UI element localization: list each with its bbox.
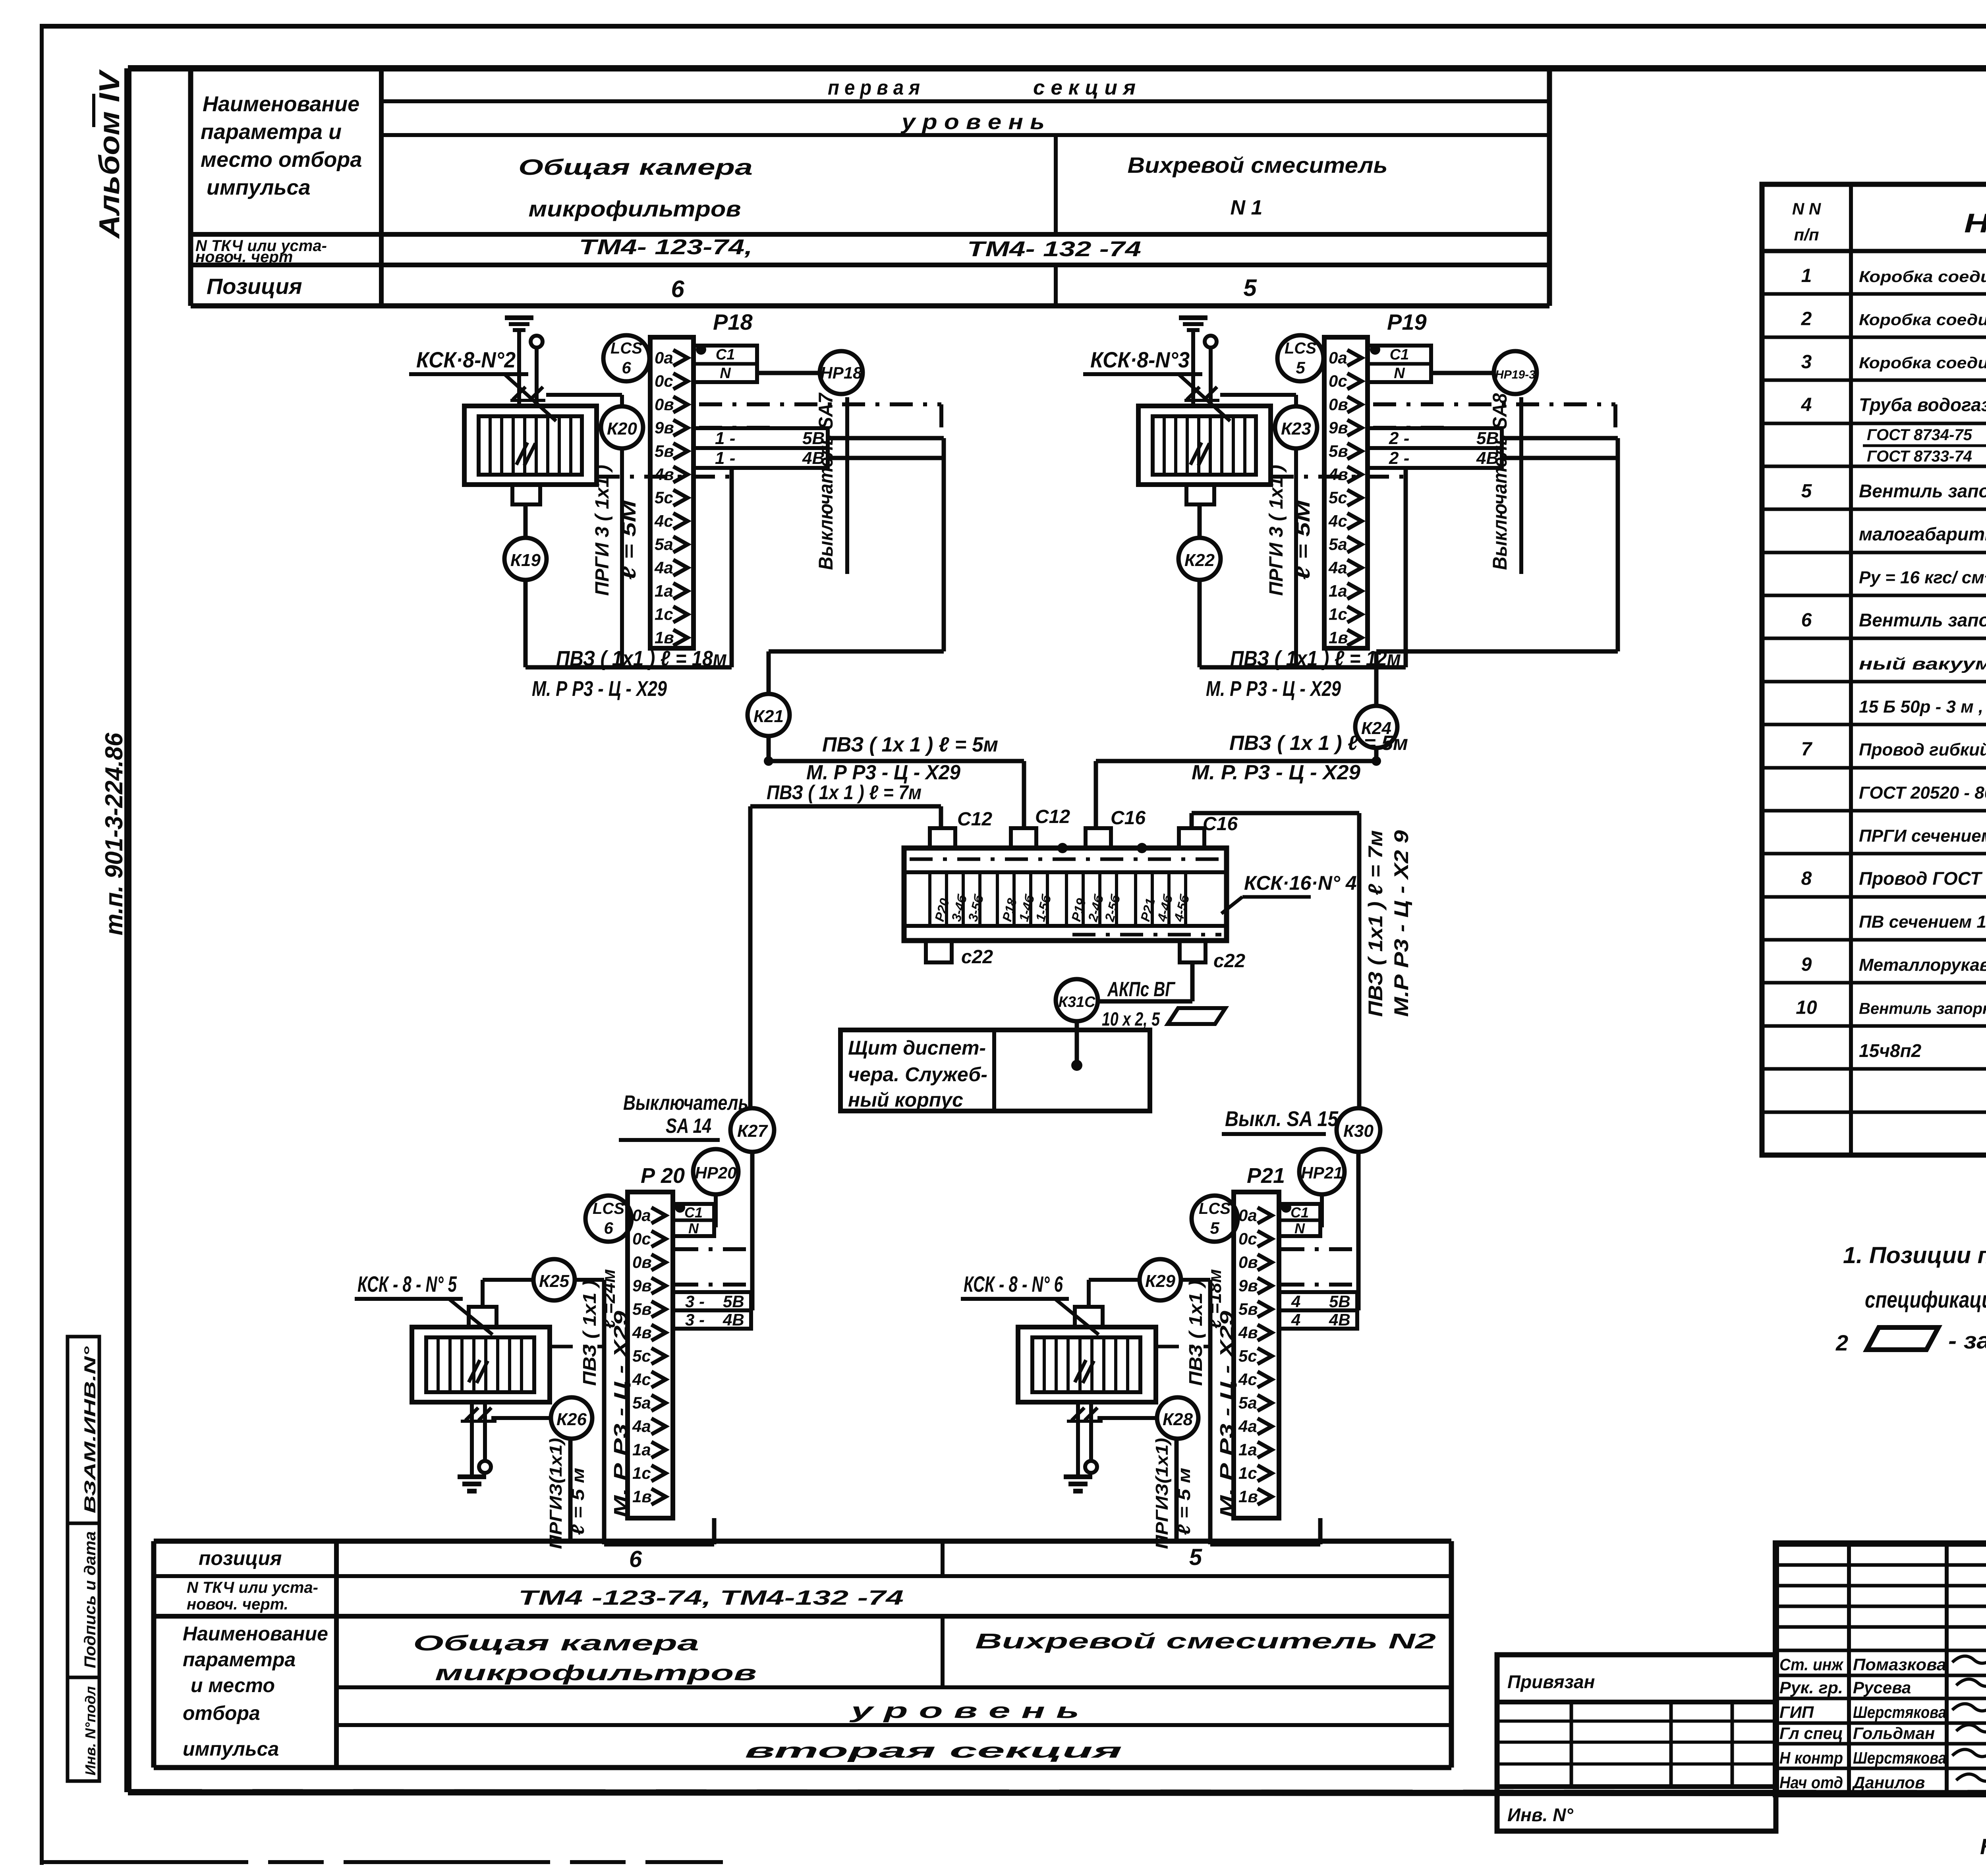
svg-text:15 Б 50р - 3 м: 15 Б 50р - 3 м , шт — [1859, 697, 1986, 717]
ground of sensor КСК·8-N°2 — [505, 318, 533, 340]
svg-text:ПВЗ ( 1х 1 ) ℓ = 5м: ПВЗ ( 1х 1 ) ℓ = 5м — [1229, 732, 1408, 755]
svg-text:1с: 1с — [632, 1464, 651, 1482]
svg-text:КСК - 8 - N° 6: КСК - 8 - N° 6 — [964, 1271, 1063, 1296]
circle К22 — [1178, 538, 1221, 580]
signal lamp НР21 — [1299, 1149, 1345, 1227]
svg-text:4а: 4а — [632, 1417, 651, 1435]
svg-text:Наименование: Наименование — [1964, 208, 1986, 238]
svg-text:5с: 5с — [655, 488, 673, 507]
wire to lower-left group ПВЗ 7м — [750, 806, 941, 1108]
svg-text:М. Р. Р3 - Ц - Х29: М. Р. Р3 - Ц - Х29 — [1192, 761, 1360, 784]
svg-text:N N: N N — [1792, 199, 1822, 218]
svg-text:КСК·8-N°2: КСК·8-N°2 — [416, 347, 516, 372]
svg-text:К22: К22 — [1184, 551, 1215, 570]
svg-text:Шерстякова: Шерстякова — [1853, 1703, 1946, 1721]
svg-text:5а: 5а — [1329, 535, 1347, 554]
svg-text:1 -: 1 - — [715, 448, 735, 468]
level sensor body — [1018, 1307, 1156, 1402]
svg-text:5В: 5В — [1329, 1292, 1350, 1311]
svg-text:5с: 5с — [1329, 488, 1347, 507]
svg-text:К23: К23 — [1281, 419, 1311, 439]
svg-text:LCS: LCS — [610, 340, 642, 357]
svg-text:0с: 0с — [1238, 1229, 1257, 1248]
cable label ПВЗ 5м right — [1192, 732, 1408, 784]
sensor ground wires — [461, 1402, 496, 1477]
svg-text:Шерстякова: Шерстякова — [1853, 1748, 1946, 1767]
svg-text:п е р в а я: п е р в а я — [828, 76, 920, 99]
svg-text:К26: К26 — [556, 1410, 587, 1429]
rotated cable labels — [1185, 1269, 1237, 1517]
svg-text:малогабаритный Ду = 3мм: малогабаритный Ду = 3мм — [1859, 524, 1986, 544]
svg-text:1с: 1с — [1238, 1464, 1257, 1482]
note 1 — [1843, 1242, 1986, 1314]
svg-text:2 -: 2 - — [1389, 429, 1409, 448]
svg-text:LCS: LCS — [1285, 340, 1316, 357]
svg-text:0а: 0а — [655, 348, 673, 367]
svg-text:5с: 5с — [1238, 1347, 1257, 1365]
svg-text:5в: 5в — [655, 442, 674, 460]
header table — [191, 68, 1549, 306]
svg-text:Рук. гр.: Рук. гр. — [1779, 1678, 1843, 1697]
svg-text:Р18: Р18 — [713, 309, 753, 334]
parts table rows — [1796, 265, 1986, 1061]
svg-text:ПРГИЗ(1х1): ПРГИЗ(1х1) — [1152, 1438, 1172, 1549]
svg-text:6: 6 — [671, 276, 684, 302]
svg-text:15ч8п2: 15ч8п2 — [1859, 1040, 1922, 1061]
svg-text:Русева: Русева — [1853, 1678, 1911, 1697]
svg-text:ГОСТ 20520 - 80: ГОСТ 20520 - 80 — [1859, 783, 1986, 803]
circle К19 — [504, 538, 547, 580]
ground — [458, 1463, 486, 1491]
svg-text:9: 9 — [1801, 954, 1812, 975]
svg-text:Нач отд: Нач отд — [1779, 1773, 1843, 1792]
label КСК·8-N°3 — [1083, 347, 1230, 421]
svg-text:4в: 4в — [1238, 1323, 1258, 1342]
wire to lamp — [757, 371, 820, 375]
svg-text:1с: 1с — [655, 605, 673, 624]
svg-text:ГИП: ГИП — [1779, 1703, 1814, 1721]
title block texts — [1779, 1560, 1986, 1795]
svg-text:6: 6 — [629, 1546, 642, 1572]
parts table header texts — [1792, 191, 1986, 249]
svg-text:вторая секция: вторая секция — [745, 1739, 1122, 1762]
svg-text:Коробка соединительная ТУ36. 1: Коробка соединительная ТУ36. 1753-75, КС… — [1859, 268, 1986, 286]
svg-text:Вихревой смеситель: Вихревой смеситель — [1128, 153, 1388, 178]
jumper box 3 --5В — [673, 1292, 751, 1311]
jumper box 4-5В — [1279, 1292, 1357, 1311]
dash-dot bus — [1373, 404, 1615, 437]
svg-text:0с: 0с — [1329, 372, 1347, 390]
svg-text:Наименование: Наименование — [203, 92, 359, 116]
wire to bottom run — [525, 467, 732, 667]
dash-dot sensor — [550, 1345, 604, 1349]
svg-text:ПВЗ ( 1х1 ) ℓ = 18м: ПВЗ ( 1х1 ) ℓ = 18м — [556, 647, 727, 670]
svg-text:0в: 0в — [655, 395, 674, 413]
svg-text:импульса: импульса — [207, 176, 311, 199]
svg-text:6: 6 — [1801, 610, 1812, 631]
svg-text:импульса: импульса — [183, 1738, 279, 1760]
wire k_mid — [1220, 395, 1296, 667]
wire to lamp — [1431, 371, 1494, 375]
svg-text:АКПс ВГ: АКПс ВГ — [1107, 978, 1175, 1001]
svg-text:Подпись и дата: Подпись и дата — [81, 1531, 99, 1668]
svg-text:4а: 4а — [1238, 1417, 1257, 1435]
svg-text:Ру = 16 кгс/ см² 3В - 2 м: Ру = 16 кгс/ см² 3В - 2 м , шт — [1859, 568, 1986, 587]
svg-text:у р о в е н ь: у р о в е н ь — [849, 1699, 1080, 1723]
svg-text:5В: 5В — [723, 1292, 744, 1311]
svg-text:ПРГИ сечением: 1кв. мм,: ПРГИ сечением: 1кв. мм, М — [1859, 826, 1986, 846]
svg-text:5в: 5в — [632, 1300, 652, 1318]
svg-text:6: 6 — [604, 1219, 613, 1237]
ground of sensor КСК·8-N°3 — [1179, 318, 1207, 340]
svg-text:4: 4 — [1801, 394, 1812, 415]
svg-text:Вентиль запорный сильфон-: Вентиль запорный сильфон- — [1859, 610, 1986, 630]
svg-text:3 -: 3 - — [685, 1292, 705, 1311]
svg-text:Коробка соединительная ТУ36. 1: Коробка соединительная ТУ36. 1753-75, КС… — [1859, 354, 1986, 372]
svg-text:9в: 9в — [1238, 1276, 1258, 1295]
switch label Выключатель — [619, 1092, 748, 1140]
svg-text:1в: 1в — [632, 1487, 652, 1506]
svg-text:0в: 0в — [1238, 1253, 1258, 1271]
dispatcher panel box — [840, 1030, 1150, 1111]
rotated label PRGIZ — [1152, 1438, 1194, 1549]
svg-text:Выкл. SA 15: Выкл. SA 15 — [1225, 1107, 1339, 1131]
svg-text:параметра и: параметра и — [201, 120, 342, 144]
svg-text:С1: С1 — [1291, 1204, 1309, 1221]
switch label Выключатель SA8 — [1489, 393, 1521, 574]
svg-text:4В: 4В — [1329, 1310, 1350, 1329]
svg-text:1. Позиции приборов соотве: 1. Позиции приборов соответствуют заказн… — [1843, 1242, 1986, 1268]
svg-text:ПВЗ ( 1х 1 ) ℓ = 7м: ПВЗ ( 1х 1 ) ℓ = 7м — [767, 781, 922, 804]
svg-text:С16: С16 — [1111, 808, 1146, 829]
terminal strip Р18 — [650, 337, 694, 648]
dash-dot bus — [675, 1249, 751, 1285]
wire to lower-right group — [1192, 813, 1359, 1108]
svg-text:1с: 1с — [1329, 605, 1347, 624]
svg-text:К31С: К31С — [1058, 994, 1095, 1010]
label KSK-16-N4 — [1221, 872, 1357, 914]
level sensor body — [412, 1307, 550, 1402]
cable label ПВЗ 5м left — [806, 733, 998, 784]
signal lamp НР18 — [820, 351, 863, 394]
svg-text:- заполняется при привязке: - заполняется при привязке проекта — [1948, 1328, 1986, 1354]
svg-text:М. Р Р3 - Ц - Х29: М. Р Р3 - Ц - Х29 — [1216, 1310, 1237, 1517]
svg-text:9в: 9в — [655, 418, 674, 437]
svg-text:3 -: 3 - — [685, 1310, 705, 1329]
dash-dot from sensor — [597, 475, 730, 479]
svg-text:Провод гибкий с медной жило: Провод гибкий с медной жилой — [1859, 740, 1986, 759]
svg-text:Помазкова: Помазкова — [1853, 1655, 1946, 1674]
svg-text:М. Р Р3 - Ц - Х29: М. Р Р3 - Ц - Х29 — [532, 677, 667, 701]
circle К30 — [1337, 1108, 1380, 1310]
svg-text:у р о в е н ь: у р о в е н ь — [900, 110, 1045, 134]
svg-text:SA 14: SA 14 — [666, 1115, 711, 1138]
svg-text:5В: 5В — [1476, 429, 1499, 448]
label КСК - 8 - N° 6 — [961, 1271, 1099, 1335]
circle LCS 5 — [1192, 1196, 1238, 1242]
svg-text:9в: 9в — [632, 1276, 652, 1295]
level sensor body — [1138, 406, 1271, 504]
outer wire box — [1210, 1280, 1320, 1544]
svg-text:5а: 5а — [655, 535, 673, 554]
svg-text:Р21: Р21 — [1247, 1164, 1285, 1188]
svg-text:2: 2 — [1801, 308, 1812, 329]
svg-text:ный вакуумный Ду = 10 мм, Р: ный вакуумный Ду = 10 мм, Рр=1кгс/см² — [1859, 654, 1986, 673]
junction box dash-dot — [910, 843, 1221, 935]
wire to bottom run — [1200, 467, 1406, 667]
header table texts — [195, 76, 1388, 302]
wire K21 to box — [769, 761, 1024, 828]
svg-text:Копировал Годлевская: Копировал Годлевская — [1980, 1834, 1986, 1859]
rotated label PRGIZ — [546, 1438, 588, 1549]
svg-text:микрофильтров: микрофильтров — [435, 1661, 757, 1685]
svg-text:1а: 1а — [1238, 1440, 1257, 1459]
svg-text:Данилов: Данилов — [1852, 1773, 1925, 1792]
x marks — [1184, 387, 1219, 400]
junction box terminal cells — [930, 872, 1192, 926]
svg-text:К20: К20 — [607, 419, 638, 439]
svg-text:чера. Служеб-: чера. Служеб- — [848, 1063, 987, 1086]
circle K24 — [1355, 438, 1618, 761]
svg-text:с22: с22 — [961, 947, 993, 968]
svg-text:1в: 1в — [1329, 628, 1348, 647]
svg-text:ℓ = 5М: ℓ = 5М — [1293, 500, 1314, 580]
stamp box Инв.№ подл — [68, 1677, 99, 1781]
sensor ground wires — [1067, 1402, 1103, 1477]
bottom table — [154, 1541, 1451, 1768]
svg-text:5: 5 — [1243, 274, 1257, 301]
svg-text:5: 5 — [1801, 481, 1812, 502]
svg-text:1в: 1в — [1238, 1487, 1258, 1506]
parts table grid — [1762, 184, 1986, 1155]
svg-text:Инв. N°подл: Инв. N°подл — [82, 1686, 99, 1776]
open terminal — [1205, 336, 1217, 348]
svg-text:С1: С1 — [684, 1204, 703, 1221]
circle K21 — [748, 651, 944, 761]
svg-text:4с: 4с — [1328, 512, 1347, 530]
svg-text:9в: 9в — [1329, 418, 1348, 437]
wire sensor drops — [519, 340, 537, 406]
svg-text:1в: 1в — [655, 628, 674, 647]
dash-dot sensor — [1156, 1345, 1210, 1349]
svg-text:1 -: 1 - — [715, 429, 735, 448]
svg-text:Выключатель: Выключатель — [623, 1092, 748, 1115]
svg-text:НР19-3: НР19-3 — [1495, 368, 1536, 381]
switch label Выкл. SA 15 — [1222, 1107, 1339, 1134]
svg-text:ПВЗ ( 1х1 ): ПВЗ ( 1х1 ) — [579, 1280, 600, 1386]
svg-text:5: 5 — [1189, 1544, 1202, 1570]
svg-text:5В: 5В — [802, 429, 825, 448]
svg-text:Труба водогазопроводная: Труба водогазопроводная — [1859, 394, 1986, 415]
svg-text:Вихревой смеситель N2: Вихревой смеситель N2 — [975, 1629, 1436, 1653]
svg-text:С1: С1 — [1390, 346, 1409, 363]
svg-text:2: 2 — [1835, 1330, 1848, 1355]
wire sensor drops — [1193, 340, 1211, 406]
label КСК·8-N°2 — [409, 347, 556, 421]
circle LCS 5 — [1277, 335, 1323, 381]
svg-text:4В: 4В — [723, 1310, 744, 1329]
svg-text:Гольдман: Гольдман — [1853, 1724, 1935, 1743]
svg-text:Общая камера: Общая камера — [413, 1631, 699, 1655]
svg-text:Инв. N°: Инв. N° — [1507, 1805, 1573, 1825]
signal lamp НР20 — [693, 1149, 738, 1227]
svg-text:спецификации АТХ-СО, альбом: спецификации АТХ-СО, альбом VII часть 2. — [1865, 1287, 1986, 1313]
svg-text:ℓ = 5 м: ℓ = 5 м — [568, 1468, 588, 1535]
svg-text:ПВЗ ( 1х1 ): ПВЗ ( 1х1 ) — [1185, 1280, 1206, 1386]
rotated cable labels — [579, 1269, 631, 1517]
svg-text:Вентиль запорный муфтовый: Вентиль запорный муфтовый Ду=15мм — [1859, 1000, 1986, 1018]
svg-text:ный корпус: ный корпус — [848, 1089, 963, 1111]
terminal strip Р19 — [1324, 337, 1368, 648]
outer wire box — [604, 1280, 714, 1544]
svg-text:отбора: отбора — [183, 1702, 260, 1724]
svg-text:4а: 4а — [654, 558, 673, 577]
C1/N box — [1279, 1202, 1320, 1236]
label AKPs VG — [1102, 978, 1225, 1030]
svg-text:0с: 0с — [632, 1229, 651, 1248]
svg-text:4: 4 — [1291, 1310, 1300, 1329]
dash-dot from sensor — [1271, 475, 1404, 479]
svg-text:Металлорукав Р3-Ц -Х29: Металлорукав Р3-Ц -Х29 М — [1859, 955, 1986, 975]
circle К23 — [1275, 406, 1317, 448]
open terminal — [531, 336, 543, 348]
jumper box 1 --4В — [694, 448, 828, 468]
svg-text:4в: 4в — [1328, 465, 1348, 484]
svg-text:с е к ц и я: с е к ц и я — [1033, 76, 1136, 99]
svg-text:Коробка соединительная ТУ36. 1: Коробка соединительная ТУ36. 1753-75, КС… — [1859, 311, 1986, 328]
svg-text:К30: К30 — [1343, 1121, 1374, 1141]
terminal strip Р21 — [1234, 1192, 1279, 1518]
dash-dot bus — [1281, 1249, 1357, 1285]
jumper box 3 --4В — [673, 1310, 751, 1329]
svg-text:10 х 2, 5: 10 х 2, 5 — [1102, 1009, 1160, 1030]
svg-text:6: 6 — [622, 358, 631, 377]
svg-text:и место: и место — [191, 1674, 275, 1696]
circle К20 — [601, 406, 643, 448]
svg-text:место отбора: место отбора — [201, 148, 362, 172]
svg-text:К27: К27 — [737, 1121, 769, 1141]
junction box bottom stubs — [926, 941, 1206, 962]
cable label ПВЗ — [532, 647, 727, 701]
svg-text:4с: 4с — [654, 512, 673, 530]
svg-text:5в: 5в — [1238, 1300, 1258, 1318]
svg-text:5с: 5с — [632, 1347, 651, 1365]
svg-text:М. Р Р3 - Ц - Х29: М. Р Р3 - Ц - Х29 — [1206, 677, 1341, 701]
svg-text:5: 5 — [1296, 358, 1305, 377]
privyazan block — [1497, 1655, 1776, 1831]
svg-text:НР20: НР20 — [695, 1163, 736, 1182]
jumper box 4-4В — [1279, 1310, 1357, 1329]
svg-text:7: 7 — [1801, 739, 1813, 760]
svg-text:С12: С12 — [1035, 806, 1070, 827]
note 2 with parallelogram — [1835, 1327, 1986, 1355]
C1/N box — [673, 1202, 714, 1236]
svg-text:LCS: LCS — [1199, 1200, 1231, 1217]
circle К26 — [491, 1397, 592, 1541]
wire k_mid — [546, 395, 622, 667]
svg-text:ВЗАМ.ИНВ.N°: ВЗАМ.ИНВ.N° — [81, 1346, 99, 1513]
svg-text:Выключатель SA7: Выключатель SA7 — [815, 392, 837, 570]
svg-text:М. Р Р3 - Ц - Х29: М. Р Р3 - Ц - Х29 — [610, 1310, 631, 1517]
svg-text:ГОСТ 8733-74: ГОСТ 8733-74 — [1867, 448, 1972, 465]
svg-text:3: 3 — [1801, 352, 1812, 373]
svg-text:N: N — [720, 365, 731, 382]
svg-text:параметра: параметра — [183, 1648, 296, 1671]
svg-text:ПВЗ ( 1х1 ) ℓ = 7м: ПВЗ ( 1х1 ) ℓ = 7м — [1364, 830, 1387, 1017]
jumper box 2 --5В — [1368, 428, 1502, 448]
svg-text:М.Р Р3 - Ц - Х2 9: М.Р Р3 - Ц - Х2 9 — [1390, 830, 1412, 1017]
svg-text:5: 5 — [1210, 1219, 1219, 1237]
svg-text:1а: 1а — [655, 582, 673, 600]
svg-text:Наименование: Наименование — [183, 1623, 328, 1645]
svg-text:С12: С12 — [957, 809, 992, 830]
circle К29 — [1089, 1259, 1210, 1307]
svg-text:Выключатель SA8: Выключатель SA8 — [1489, 393, 1511, 570]
label КСК - 8 - N° 5 — [355, 1271, 493, 1335]
svg-text:4В: 4В — [802, 448, 825, 468]
svg-text:Гл спец: Гл спец — [1779, 1724, 1843, 1743]
svg-text:ТМ4 -123-74, ТМ4-132 -74: ТМ4 -123-74, ТМ4-132 -74 — [518, 1586, 904, 1609]
svg-text:КСК - 8 - N° 5: КСК - 8 - N° 5 — [357, 1271, 457, 1296]
svg-text:4: 4 — [1291, 1292, 1300, 1311]
svg-text:8: 8 — [1801, 868, 1812, 889]
svg-text:п/п: п/п — [1794, 225, 1819, 244]
svg-text:0а: 0а — [632, 1206, 651, 1225]
circle K31C — [1056, 962, 1192, 1021]
svg-text:К29: К29 — [1145, 1271, 1176, 1291]
svg-text:КСК·16·N° 4: КСК·16·N° 4 — [1244, 872, 1357, 894]
svg-text:4В: 4В — [1476, 448, 1499, 468]
svg-text:N: N — [688, 1220, 699, 1236]
svg-text:2 -: 2 - — [1389, 448, 1409, 468]
svg-text:1а: 1а — [632, 1440, 651, 1459]
svg-text:Провод ГОСТ 6323 - 79: Провод ГОСТ 6323 - 79 — [1859, 868, 1986, 889]
cable label ПРГИ — [592, 465, 640, 596]
svg-text:5в: 5в — [1329, 442, 1348, 460]
jumper box 2 --4В — [1368, 448, 1502, 468]
svg-text:0а: 0а — [1329, 348, 1347, 367]
svg-text:ПРГИ 3 ( 1х1 ): ПРГИ 3 ( 1х1 ) — [1266, 465, 1287, 596]
svg-text:4в: 4в — [632, 1323, 652, 1342]
svg-text:4с: 4с — [1238, 1370, 1257, 1389]
svg-text:0а: 0а — [1238, 1206, 1257, 1225]
wires from jumpers — [828, 438, 944, 651]
stamp box Взам.инв.№ — [68, 1337, 99, 1523]
svg-text:Вентиль запорный муфтовый: Вентиль запорный муфтовый — [1859, 481, 1986, 501]
svg-text:т.п. 901-3-224.86: т.п. 901-3-224.86 — [100, 732, 128, 935]
svg-text:С16: С16 — [1203, 813, 1238, 835]
junction box top stubs — [930, 828, 1204, 848]
wire K24 to box — [1096, 761, 1376, 828]
svg-text:5а: 5а — [1238, 1393, 1257, 1412]
svg-text:М. Р Р3 - Ц - Х29: М. Р Р3 - Ц - Х29 — [806, 761, 960, 784]
svg-text:ТМ4- 123-74,: ТМ4- 123-74, — [579, 235, 753, 259]
rotated cable label right — [1364, 830, 1412, 1017]
title block — [1776, 1544, 1986, 1794]
svg-text:С1: С1 — [716, 346, 735, 363]
C1/N box — [1368, 344, 1431, 382]
svg-text:Щит диспет-: Щит диспет- — [848, 1037, 986, 1059]
svg-text:КСК·8-N°3: КСК·8-N°3 — [1090, 347, 1190, 372]
circle LCS 6 — [603, 335, 649, 381]
svg-text:1а: 1а — [1329, 582, 1347, 600]
svg-text:ГОСТ 8734-75: ГОСТ 8734-75 — [1867, 426, 1972, 444]
svg-text:4с: 4с — [632, 1370, 651, 1389]
bottom table texts — [183, 1544, 1436, 1762]
svg-text:Позиция: Позиция — [207, 274, 302, 299]
svg-text:N: N — [1394, 365, 1405, 382]
svg-text:LCS: LCS — [593, 1200, 624, 1217]
